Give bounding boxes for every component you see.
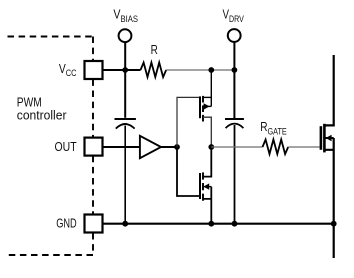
- resistor RGATE: [263, 140, 289, 155]
- wire VBIAS stem down to rail: [124, 42, 126, 70]
- PWM controller dashed outline (bottom edge): [8, 233, 94, 255]
- capacitor C2 curved plate: [226, 124, 244, 128]
- resistor R: [141, 63, 167, 78]
- capacitor C1 top stem: [124, 70, 126, 118]
- pin box GND: [85, 215, 103, 233]
- transistor Q3 body stub with arrow: [324, 135, 333, 142]
- svg-text:R: R: [151, 43, 158, 57]
- capacitor C2 flat plate: [225, 118, 244, 120]
- transistor Q1 PMOS gate bar: [199, 96, 201, 118]
- pin box OUT: [85, 138, 103, 156]
- terminal VDRV circle: [228, 29, 241, 42]
- wire rail from R to VDRV node (thin): [166, 69, 234, 71]
- transistor Q1 PMOS body stub with arrow: [203, 103, 211, 109]
- PWM controller dashed outline (right edge between VCC and OUT pins): [92, 79, 94, 137]
- label VCC: [59, 62, 77, 78]
- wire gate feed to PMOS (up): [177, 97, 199, 147]
- node junction NMOS source/ground rail: [208, 221, 214, 227]
- svg-text:OUT: OUT: [55, 140, 77, 154]
- wire OUT pin to buffer: [103, 146, 141, 148]
- wire C2 bottom to ground rail: [234, 125, 236, 224]
- label RGATE: [260, 120, 287, 136]
- transistor Q3 power MOSFET gate bar: [320, 126, 323, 150]
- node junction VBIAS/VCC rail: [122, 67, 128, 73]
- capacitor C1 curved plate: [116, 124, 135, 129]
- label GND: [56, 216, 76, 230]
- wire RGATE to power MOSFET gate (thin): [288, 146, 319, 148]
- node junction power MOSFET source/ground rail: [331, 221, 337, 227]
- PWM controller dashed outline (right edge between OUT and GND pins): [92, 156, 94, 214]
- wire PMOS source to rail: [210, 70, 212, 106]
- node junction C1/ground rail: [122, 221, 128, 227]
- PWM controller dashed outline (top edge): [8, 37, 94, 61]
- node A buffer output junction: [174, 144, 180, 150]
- wire C1 bottom to ground rail: [124, 126, 126, 224]
- svg-text:controller: controller: [17, 108, 67, 122]
- wire buffer output: [161, 146, 177, 148]
- ground rail: [103, 223, 334, 225]
- wire VDRV stem down to cap C2 top plate: [233, 42, 235, 118]
- label PWM controller: [17, 95, 67, 122]
- transistor Q2 NMOS gate bar: [199, 173, 201, 199]
- wire driver output to RGATE (thin): [211, 146, 262, 148]
- label R: [151, 43, 158, 57]
- transistor Q1 PMOS source stub: [203, 96, 211, 98]
- transistor Q3 drain stub and drain line up: [324, 55, 333, 125]
- transistor Q3 source stub and source line down: [324, 138, 333, 258]
- transistor Q2 NMOS drain stub from output: [203, 147, 211, 177]
- pin box VCC: [85, 61, 103, 79]
- terminal VBIAS circle: [119, 29, 132, 42]
- node junction rail/PMOS source: [208, 67, 214, 73]
- node junction rail/VDRV: [232, 67, 238, 73]
- svg-text:PWM: PWM: [17, 95, 42, 109]
- transistor Q3 power MOSFET channel bar: [323, 124, 326, 153]
- transistor Q1 PMOS drain stub down to output: [203, 117, 211, 147]
- capacitor C1 flat plate: [115, 118, 136, 120]
- transistor Q2 NMOS body stub with arrow: [203, 183, 211, 189]
- node B driver output junction: [208, 144, 214, 150]
- label VDRV: [223, 8, 244, 24]
- label OUT: [55, 140, 77, 154]
- svg-text:GND: GND: [56, 216, 76, 230]
- transistor Q2 NMOS channel (dashed): [202, 172, 204, 200]
- transistor Q1 PMOS channel (dashed): [202, 96, 204, 122]
- wire VCC pin to resistor R: [103, 69, 141, 71]
- buffer U1 triangle: [140, 136, 161, 158]
- transistor Q2 NMOS source stub to ground rail: [203, 187, 211, 224]
- node junction C2/ground rail: [232, 221, 238, 227]
- wire gate feed to NMOS (down): [177, 147, 199, 196]
- label VBIAS: [113, 8, 138, 24]
